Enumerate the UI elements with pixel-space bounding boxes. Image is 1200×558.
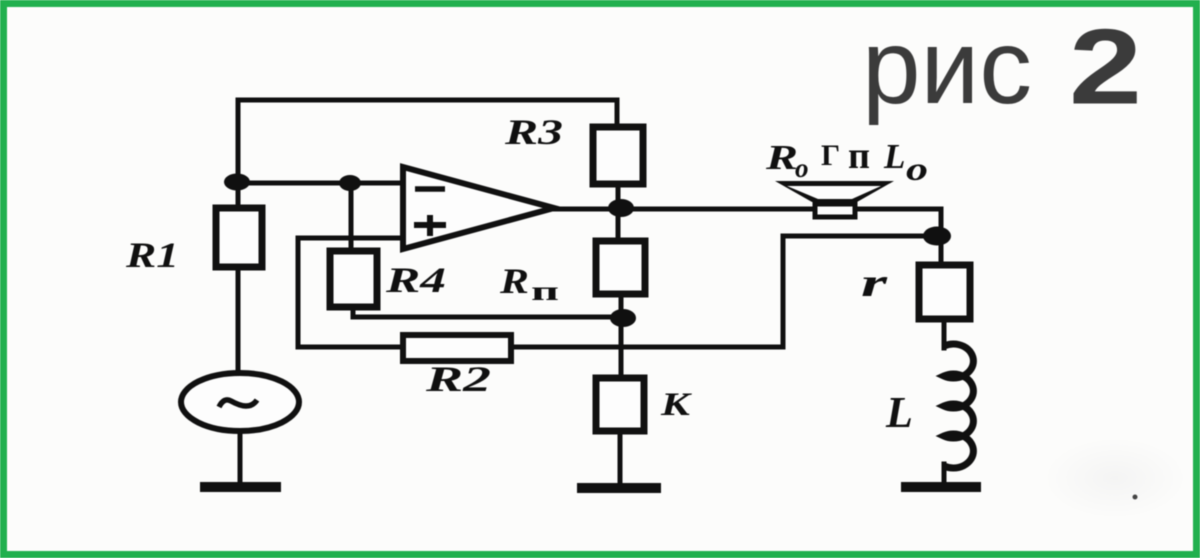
svg-text:R: R [499,261,529,301]
svg-text:рис: рис [862,8,1032,126]
svg-text:R: R [765,138,798,177]
svg-text:L: L [883,137,905,176]
svg-text:r: r [861,260,888,305]
svg-text:R2: R2 [424,359,491,399]
svg-text:R4: R4 [385,260,446,300]
svg-text:Г: Г [821,139,840,172]
svg-text:R1: R1 [125,235,179,275]
svg-text:o: o [906,152,928,188]
svg-text:o: o [795,153,809,183]
svg-text:К: К [660,387,692,423]
svg-text:п: п [531,276,559,306]
svg-text:L: L [885,388,913,437]
svg-text:2: 2 [1069,7,1142,127]
svg-text:R3: R3 [504,112,563,152]
svg-text:п: п [848,135,870,177]
